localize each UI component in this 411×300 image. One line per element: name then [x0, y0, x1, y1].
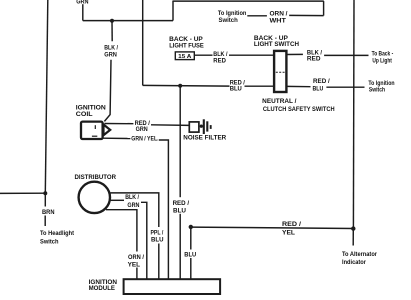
- svg-text:COIL: COIL: [76, 111, 93, 118]
- wire left horizontal to edge: [0, 192, 45, 194]
- junction dot top-left: [110, 19, 114, 23]
- ignition module component: [124, 279, 221, 294]
- back-up light switch component: [274, 51, 286, 92]
- svg-text:Switch: Switch: [369, 87, 385, 94]
- wire lower feed horizontal to RED/BLU label: [143, 84, 230, 87]
- wire switch to BLU right label: [286, 85, 310, 87]
- node GRN (top-left supply): [0, 0, 1, 1]
- wire RED/GRN to noise filter: [151, 124, 189, 127]
- wire to ignition switch segment: [247, 15, 267, 17]
- svg-text:To Alternator: To Alternator: [342, 251, 377, 258]
- svg-text:BLU: BLU: [184, 251, 196, 258]
- svg-text:Switch: Switch: [40, 239, 59, 246]
- svg-text:BLU: BLU: [151, 237, 164, 244]
- svg-text:RED /: RED /: [173, 200, 190, 207]
- wire RED/BLU drop to module lower part: [179, 214, 181, 280]
- svg-text:RED /: RED /: [282, 221, 301, 228]
- svg-text:To Ignition: To Ignition: [218, 10, 247, 17]
- svg-text:CLUTCH SAFETY SWITCH: CLUTCH SAFETY SWITCH: [263, 106, 335, 113]
- wire BLU below label to module: [190, 258, 192, 280]
- svg-text:GRN: GRN: [76, 0, 89, 5]
- wire RED/BLU drop to module upper part: [179, 86, 181, 198]
- wire fuse to BLK/RED label: [194, 54, 212, 56]
- wire switch to BLK/RED right label: [286, 53, 303, 55]
- wire GRN stub down from label: [82, 4, 84, 20]
- svg-text:BLU: BLU: [230, 86, 242, 93]
- distributor component: [79, 182, 110, 213]
- svg-text:BLU: BLU: [313, 86, 324, 93]
- wire coil feed below BLK/GRN label: [104, 60, 111, 122]
- fuse F1 15A back-up light fuse: [175, 52, 194, 60]
- wire up to top edge at x=173: [172, 1, 174, 21]
- svg-text:BRN: BRN: [42, 209, 55, 216]
- wire BRN stub below label: [44, 216, 46, 227]
- wire top-left horizontal: [83, 20, 173, 22]
- wire ORN/YEL below label to module: [136, 268, 138, 280]
- wire coil feed down from junction: [111, 21, 113, 42]
- wire distributor W1 below PPL/BLU label: [158, 244, 160, 280]
- svg-text:BLK /: BLK /: [125, 194, 139, 201]
- svg-text:BLU: BLU: [173, 208, 186, 215]
- wire BLK/RED to back-up light: [324, 54, 368, 56]
- svg-text:RED: RED: [307, 55, 321, 62]
- svg-text:RED /: RED /: [313, 78, 330, 85]
- svg-text:NEUTRAL /: NEUTRAL /: [262, 98, 296, 105]
- svg-text:YEL: YEL: [282, 229, 295, 236]
- wire distributor W2 corner down: [141, 202, 147, 279]
- wire coil RED/GRN segment: [104, 123, 133, 125]
- svg-text:BLK /: BLK /: [104, 44, 118, 51]
- svg-text:NOISE FILTER: NOISE FILTER: [183, 134, 226, 141]
- wire left main vertical: [45, 0, 48, 193]
- svg-text:GRN: GRN: [136, 126, 148, 133]
- wire right vertical to alternator indicator: [352, 229, 354, 246]
- svg-text:To Headlight: To Headlight: [40, 230, 75, 237]
- wire RED/YEL horizontal: [191, 227, 353, 228]
- wire BLK/RED to switch: [229, 54, 274, 56]
- wire along top edge: [173, 0, 324, 2]
- junction dot RED/YEL right: [351, 226, 355, 230]
- wire GRN/YEL corner down to module: [159, 140, 169, 280]
- junction dot BLU corner: [189, 225, 193, 229]
- junction dot left vertical: [43, 191, 47, 195]
- wire BRN stub above label: [44, 193, 46, 206]
- svg-text:LIGHT SWITCH: LIGHT SWITCH: [254, 41, 299, 48]
- junction dot RED/BLU branch: [178, 84, 182, 88]
- svg-text:ORN /: ORN /: [270, 11, 288, 18]
- wire distributor W2 segment: [109, 199, 124, 201]
- wire right vertical feed: [352, 0, 355, 229]
- wire BLU drop from junction: [190, 227, 192, 250]
- svg-text:PPL /: PPL /: [151, 229, 164, 236]
- svg-text:LIGHT FUSE: LIGHT FUSE: [169, 43, 204, 50]
- wire left-branch vertical at x=142.7: [142, 0, 144, 85]
- svg-text:YEL: YEL: [128, 261, 141, 268]
- svg-text:Switch: Switch: [219, 17, 238, 24]
- wire coil GRN/YEL segment: [103, 137, 130, 139]
- svg-text:GRN: GRN: [104, 52, 117, 59]
- wire RED/BLU to ignition switch right: [326, 86, 364, 88]
- svg-text:MODULE: MODULE: [89, 285, 116, 292]
- wire distributor W3 corner down: [106, 210, 137, 252]
- wire distributor W1 to corner: [110, 193, 158, 227]
- wire ORN/WHT drop: [323, 1, 325, 16]
- svg-text:Up Light: Up Light: [372, 58, 392, 65]
- wire RED/BLU resume to switch: [245, 85, 275, 87]
- noise filter component: [189, 119, 210, 134]
- svg-text:RED: RED: [213, 58, 226, 65]
- svg-text:ORN /: ORN /: [128, 254, 144, 261]
- svg-text:DISTRIBUTOR: DISTRIBUTOR: [75, 174, 117, 181]
- svg-text:Indicator: Indicator: [342, 259, 366, 266]
- ignition coil component: [81, 122, 110, 139]
- svg-text:GRN: GRN: [127, 202, 139, 209]
- svg-text:15 A: 15 A: [178, 54, 191, 60]
- svg-text:WHT: WHT: [270, 18, 286, 25]
- svg-text:GRN / YEL.: GRN / YEL.: [131, 135, 158, 142]
- wire ORN/WHT left segment to label: [289, 14, 323, 16]
